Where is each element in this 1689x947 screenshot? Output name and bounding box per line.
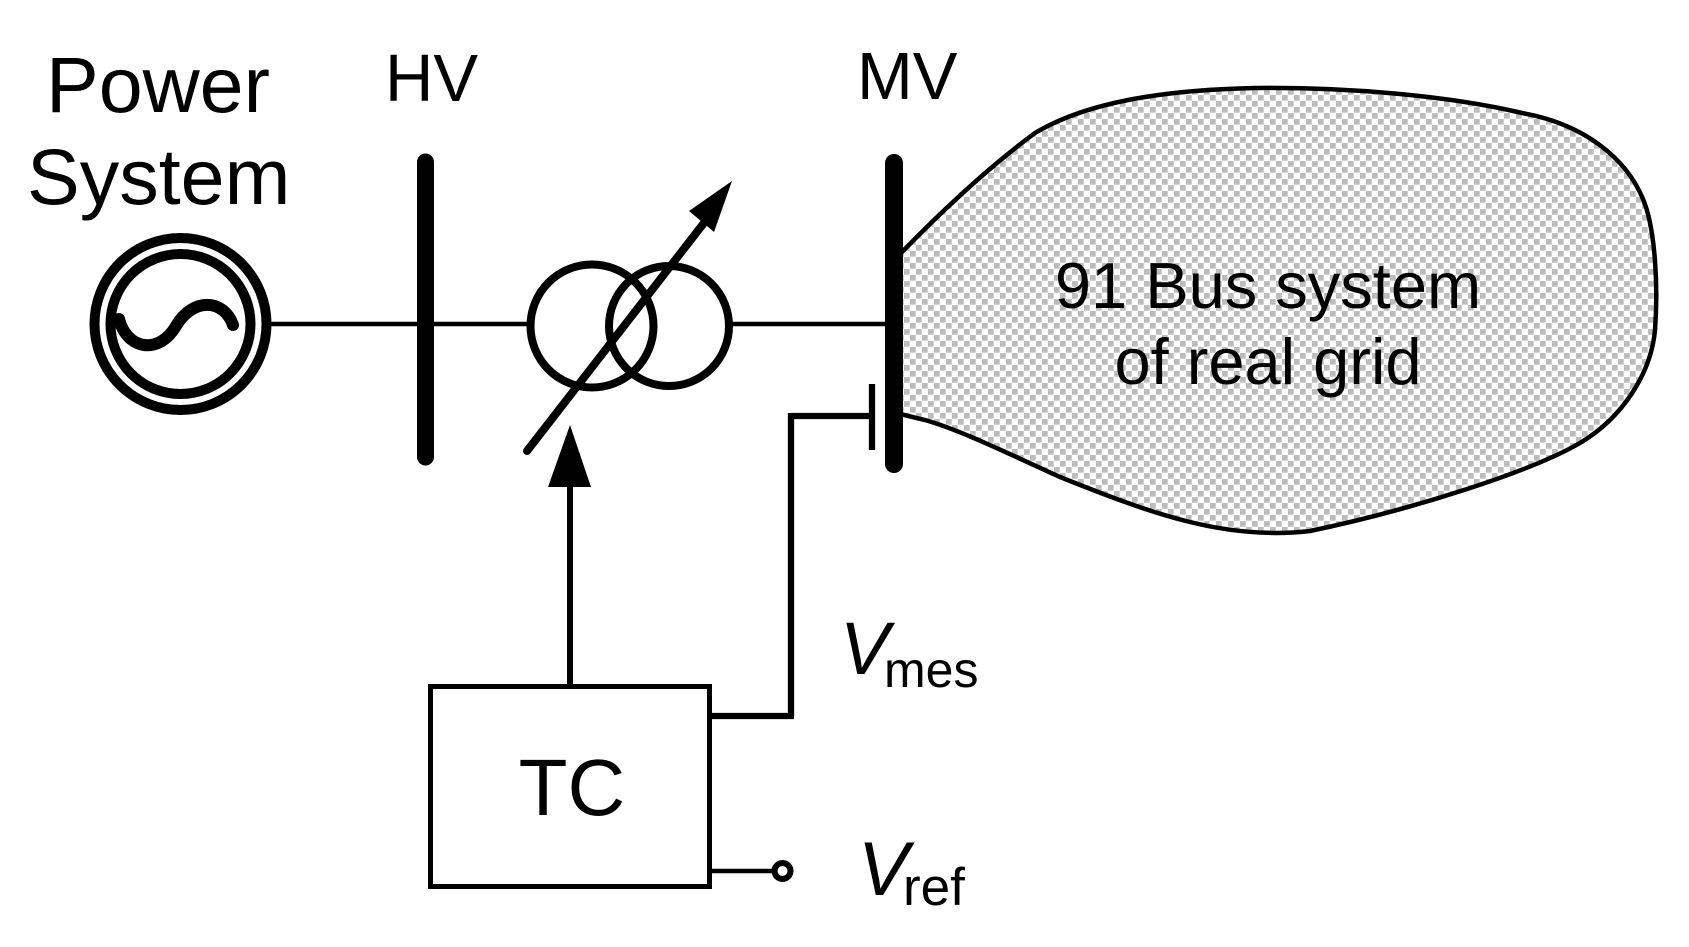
svg-text:System: System: [27, 132, 290, 221]
wire: tap bar to vertical measurement wire: [791, 413, 869, 419]
bus bar MV: [885, 163, 903, 464]
svg-text:of real grid: of real grid: [1114, 325, 1421, 398]
svg-text:91 Bus system: 91 Bus system: [1055, 249, 1481, 322]
tap changer arrow through transformer: [527, 181, 732, 451]
wire: Vref terminal: [712, 869, 772, 874]
wire: source to transformer: [268, 322, 533, 327]
svg-text:HV: HV: [385, 41, 478, 116]
terminal: Vref open circle: [775, 863, 791, 879]
svg-text:Power: Power: [46, 40, 270, 129]
wire: vertical measurement wire (Vmes): [788, 413, 794, 716]
wire: transformer to MV bus: [727, 322, 890, 327]
control arrow: TC to tap changer: [548, 425, 591, 687]
svg-text:ref: ref: [903, 858, 965, 917]
TC controller box: [431, 687, 710, 887]
bus bar HV: [417, 162, 434, 457]
AC source: Power System generator: [95, 238, 267, 410]
svg-text:MV: MV: [857, 39, 958, 114]
svg-text:mes: mes: [884, 642, 978, 698]
transformer: tap-changing transformer (two windings): [531, 265, 730, 388]
measurement tap bar at MV bus: [869, 384, 875, 450]
svg-text:TC: TC: [519, 743, 626, 832]
cloud region: 91 Bus system of real grid: [900, 88, 1656, 533]
wire: into TC box: [712, 713, 794, 719]
